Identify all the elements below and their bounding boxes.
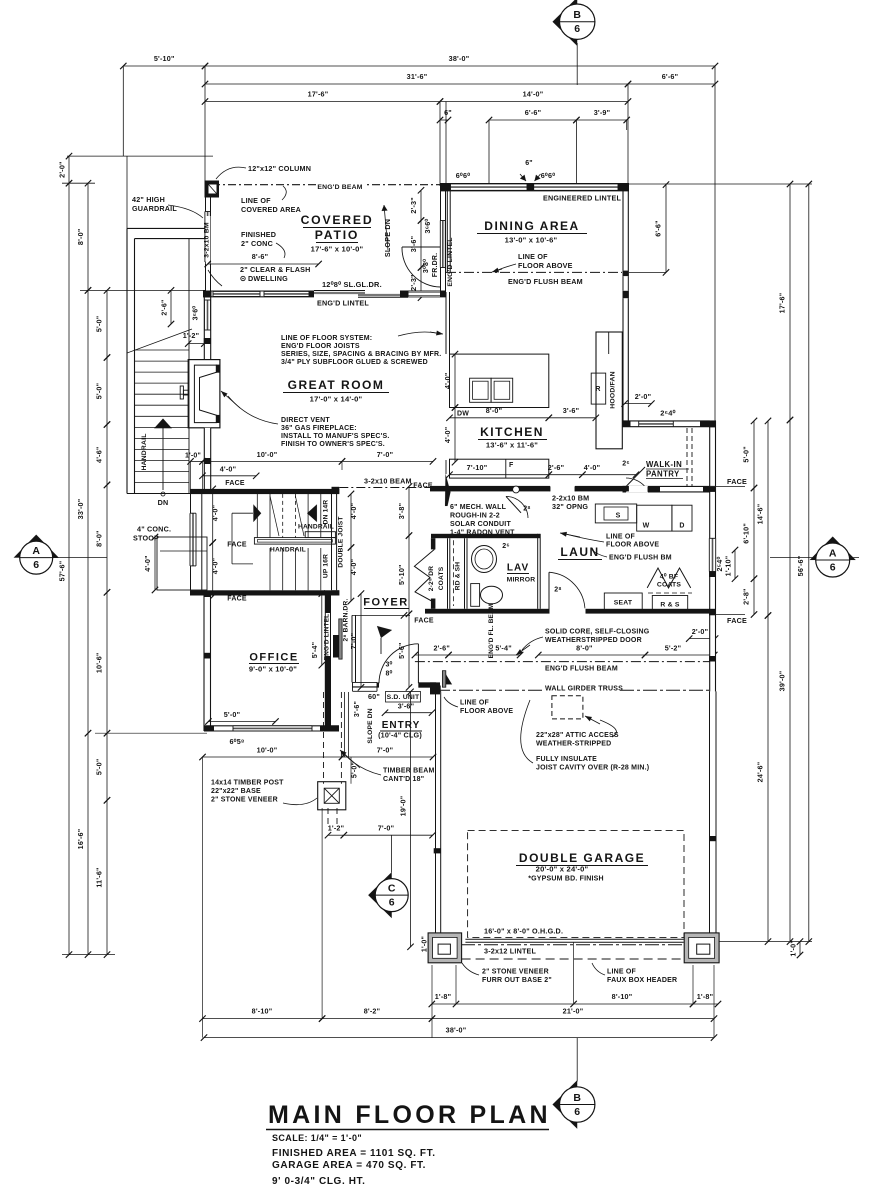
left dim col: 5'-0" second (106, 358, 108, 425)
deck stair direction arrow + DN (162, 428, 164, 490)
patio bottom right corner block (400, 291, 409, 298)
top dimension row: 6'-6" window (489, 119, 576, 121)
dim 5'-0 office bottom (208, 721, 275, 723)
top dimension row: 6'-6" (right) (628, 83, 715, 85)
3-2x10 beam dashed to kitchen (339, 487, 446, 489)
deck bottom edge (127, 493, 205, 495)
garage interior dashed gypsum box (468, 830, 684, 937)
svg-text:5'-0": 5'-0" (352, 762, 359, 778)
svg-text:8⁰: 8⁰ (385, 670, 392, 678)
svg-text:8'-2": 8'-2" (364, 1007, 381, 1016)
svg-text:B: B (573, 9, 581, 21)
svg-text:DN 14R: DN 14R (323, 500, 330, 525)
great room / kitchen divider wall (445, 292, 447, 354)
svg-text:R & S: R & S (660, 602, 679, 609)
svg-text:2'-3": 2'-3" (409, 274, 418, 291)
svg-text:4'-6": 4'-6" (95, 446, 104, 463)
right exterior wall upper (pantry) (710, 421, 716, 487)
svg-text:36" GAS FIREPLACE:: 36" GAS FIREPLACE: (281, 425, 357, 432)
office right wall (324, 594, 326, 731)
svg-text:5'-0": 5'-0" (224, 710, 241, 719)
patio right wall (440, 190, 442, 291)
svg-text:3'-6": 3'-6" (563, 406, 580, 415)
svg-text:2'-0": 2'-0" (58, 161, 67, 178)
svg-text:1-4" RADON VENT: 1-4" RADON VENT (450, 530, 515, 537)
laundry door opening in bottom wall (550, 608, 586, 614)
handrail bar (254, 538, 335, 545)
svg-text:LINE OF: LINE OF (518, 252, 548, 261)
svg-text:HOOD/FAN: HOOD/FAN (610, 371, 617, 408)
stair diagonal break lines (270, 496, 279, 536)
dims foyer 3'-8 5'-10 5'-6 (408, 486, 410, 535)
svg-text:FACE: FACE (227, 542, 247, 549)
laundry bottom wall (425, 609, 716, 614)
svg-text:2⁸: 2⁸ (554, 587, 562, 594)
stone veneer post right (684, 933, 719, 963)
dim 4'-0 vert gap (454, 408, 456, 463)
svg-text:4'-0": 4'-0" (211, 505, 220, 522)
kitchen island (450, 354, 549, 407)
dims 4'-0 foyer col (350, 494, 352, 548)
right dim col: 56'-6" overall (808, 184, 810, 942)
section marker B/6 top (576, 43, 578, 85)
right dim col: 2'-8" (753, 579, 755, 615)
bottom dim row A: 1'-8" right (693, 1003, 718, 1005)
svg-text:1'-10": 1'-10" (724, 556, 733, 577)
svg-text:3⁶6⁰: 3⁶6⁰ (423, 219, 432, 234)
toilet (471, 584, 480, 607)
stair walk path loop (232, 512, 253, 514)
kitchen sink double (470, 378, 492, 402)
svg-text:39'-0": 39'-0" (778, 671, 787, 692)
svg-text:SOLID CORE, SELF-CLOSING: SOLID CORE, SELF-CLOSING (545, 629, 650, 636)
left dim col: 8'-0" (87, 183, 89, 290)
dashed line eng'd flush beam dining (446, 271, 622, 273)
svg-text:ENG'D LINTEL: ENG'D LINTEL (317, 299, 369, 308)
svg-text:FINISH TO OWNER'S SPEC'S.: FINISH TO OWNER'S SPEC'S. (281, 441, 385, 448)
svg-text:8'-0": 8'-0" (76, 229, 85, 246)
foyer face wall (south) with window and door opening (352, 682, 379, 687)
dining right wall (622, 189, 624, 271)
svg-text:2" STONE VENEER: 2" STONE VENEER (211, 797, 278, 804)
svg-text:2'-0": 2'-0" (635, 392, 652, 401)
svg-text:(10'-4" CLG): (10'-4" CLG) (378, 731, 422, 740)
timber post 14x14 (318, 782, 346, 810)
dining top windows 6-0 6-0 (451, 184, 528, 190)
stair right wall (332, 487, 340, 494)
svg-text:6⁰6⁰: 6⁰6⁰ (456, 171, 471, 180)
pantry bottom wall (623, 486, 717, 492)
svg-text:WALL GIRDER TRUSS: WALL GIRDER TRUSS (545, 686, 623, 693)
svg-text:10'-6": 10'-6" (95, 652, 104, 673)
svg-text:1'-2": 1'-2" (183, 331, 200, 340)
svg-text:1'-2": 1'-2" (328, 824, 345, 833)
svg-text:3⁰: 3⁰ (385, 661, 392, 669)
bottom dim row B: 8'-10" (203, 1018, 323, 1020)
svg-text:FLOOR ABOVE: FLOOR ABOVE (460, 708, 513, 715)
svg-text:SOLAR CONDUIT: SOLAR CONDUIT (450, 521, 511, 528)
dim 5'-4 office rot (321, 594, 323, 666)
svg-text:ENG'D BEAM: ENG'D BEAM (317, 184, 362, 191)
svg-text:17'-0" x 14'-0": 17'-0" x 14'-0" (310, 395, 363, 404)
svg-text:6" MECH. WALL: 6" MECH. WALL (450, 504, 507, 511)
entry west wall (351, 615, 353, 682)
patio left wall window (205, 212, 210, 263)
laundry appliances S W D (595, 504, 636, 523)
svg-text:TIMBER BEAM: TIMBER BEAM (383, 768, 435, 775)
svg-text:5'-6": 5'-6" (397, 642, 406, 659)
svg-text:20'-0" x 24'-0": 20'-0" x 24'-0" (536, 865, 589, 874)
right dim col: 5'-0" pantry (753, 421, 755, 488)
svg-text:22"x22" BASE: 22"x22" BASE (211, 788, 261, 795)
bath left wall (464, 538, 466, 609)
svg-text:24'-6": 24'-6" (756, 762, 765, 783)
top dimension row: 31'-6" (205, 83, 628, 85)
dim 3'-6 entry (385, 712, 432, 714)
deck stair treads (135, 349, 190, 351)
svg-text:1'-0": 1'-0" (422, 936, 429, 952)
svg-text:5'-10": 5'-10" (397, 564, 406, 585)
closet bifold doors M (414, 549, 434, 602)
R & S box (652, 596, 687, 611)
closet jambs (431, 538, 436, 549)
svg-text:3'-8": 3'-8" (397, 503, 406, 520)
kitchen/laundry dividing wall (430, 486, 550, 492)
svg-text:13'-0" x 10'-6": 13'-0" x 10'-6" (505, 236, 558, 245)
svg-text:6: 6 (33, 559, 39, 571)
bottom dim row A: 8'-10" door (574, 1003, 693, 1005)
right dim col: 6'-10" (753, 488, 755, 579)
deck handrail bracket (180, 386, 183, 399)
bottom extension lines (202, 757, 204, 1038)
dim 8'-6 patio (208, 263, 319, 265)
svg-text:7'-0": 7'-0" (349, 633, 358, 650)
right wall garage (709, 691, 711, 934)
svg-text:3⁰8⁰: 3⁰8⁰ (422, 259, 430, 273)
svg-text:2" CONC: 2" CONC (241, 239, 273, 248)
svg-text:33'-0": 33'-0" (76, 499, 85, 520)
dim 2'-0 kitchen right (625, 403, 652, 405)
svg-text:LAUN: LAUN (560, 545, 599, 559)
svg-text:4'-0": 4'-0" (220, 464, 237, 473)
svg-text:6": 6" (444, 108, 452, 117)
svg-text:16'-6": 16'-6" (76, 829, 85, 850)
svg-text:FACE: FACE (727, 477, 747, 486)
svg-text:A: A (32, 545, 40, 557)
stair arrow upper (DN) (253, 504, 261, 522)
extension lines top (122, 66, 124, 156)
corridor dims row 2-6 5-4 8-0 5-2 (415, 654, 449, 656)
closet top wall (431, 534, 540, 538)
svg-text:FAUX BOX HEADER: FAUX BOX HEADER (607, 977, 677, 984)
dim 7'-10 counter (450, 474, 549, 476)
svg-text:ENG'D FL. BEAM: ENG'D FL. BEAM (488, 604, 495, 659)
svg-text:CANT'D 18": CANT'D 18" (383, 776, 424, 783)
svg-text:38'-0": 38'-0" (446, 1026, 467, 1035)
svg-text:COVERED: COVERED (301, 213, 374, 227)
label WALL GIRDER TRUSS (543, 683, 619, 692)
dim 8'-0 island (450, 417, 549, 419)
svg-text:DN: DN (158, 498, 169, 507)
top dimension row: 38'-0" (205, 65, 715, 67)
svg-text:17'-6": 17'-6" (778, 293, 787, 314)
svg-text:14'-0": 14'-0" (523, 90, 544, 99)
svg-text:38'-0": 38'-0" (449, 54, 470, 63)
svg-text:WALK-IN: WALK-IN (646, 460, 682, 469)
wall opening 32in (550, 485, 575, 492)
left dim col: 10'-6" (106, 592, 108, 733)
column 12x12 top-left (205, 181, 220, 198)
dim rows below office: 10'-0 / 7'-0 (203, 756, 343, 758)
left dim col: 8'-0" lower (106, 485, 108, 592)
svg-text:FULLY INSULATE: FULLY INSULATE (536, 756, 597, 763)
patio left beam wall (205, 197, 207, 291)
svg-text:5'-10": 5'-10" (154, 54, 175, 63)
right wall window 2-5 4-0 (709, 538, 715, 571)
svg-text:*GYPSUM BD. FINISH: *GYPSUM BD. FINISH (528, 876, 604, 883)
svg-text:12"x12" COLUMN: 12"x12" COLUMN (248, 164, 311, 173)
section marker C/6 (390, 835, 392, 872)
svg-text:DWELLING: DWELLING (248, 274, 288, 283)
label ENG'D BEAM (318, 181, 364, 190)
svg-text:LINE OF: LINE OF (607, 969, 637, 976)
svg-text:3-2x10 BM: 3-2x10 BM (203, 222, 210, 258)
top dim 6" stub (440, 119, 448, 121)
kitchen lower counter (450, 459, 549, 478)
svg-text:COATS: COATS (657, 582, 682, 589)
garage left wall (435, 686, 441, 693)
sliding glass door (314, 290, 406, 298)
svg-text:FURR OUT BASE 2": FURR OUT BASE 2" (482, 977, 552, 984)
dim 3'-6 (549, 417, 596, 419)
mech wall leader flag (445, 474, 451, 506)
svg-text:FACE: FACE (225, 480, 245, 487)
garage bottom wall right stub (684, 935, 718, 941)
dim 2'-0 corridor (689, 638, 715, 640)
svg-text:6": 6" (525, 160, 533, 167)
svg-text:60": 60" (368, 692, 380, 701)
svg-text:R: R (595, 386, 600, 393)
bottom dim row A: 1'-8" left (432, 1003, 456, 1005)
stoop 4in conc (157, 537, 207, 590)
stair top wall / beam wall (190, 489, 339, 494)
top dimension row: 17'-6" (205, 101, 440, 103)
svg-text:4'-0": 4'-0" (584, 463, 601, 472)
right wall below window (710, 572, 716, 615)
svg-text:14x14 TIMBER POST: 14x14 TIMBER POST (211, 780, 284, 787)
svg-text:3/4" PLY SUBFLOOR GLUED & SCRE: 3/4" PLY SUBFLOOR GLUED & SCREWED (281, 359, 428, 366)
svg-text:8'-10": 8'-10" (612, 992, 633, 1001)
svg-text:9'-0" x 10'-0": 9'-0" x 10'-0" (249, 665, 297, 674)
svg-text:4'-0": 4'-0" (349, 559, 358, 576)
svg-text:6⁰5⁸: 6⁰5⁸ (229, 737, 244, 746)
svg-text:ENTRY: ENTRY (382, 720, 421, 731)
pantry top window (639, 421, 674, 426)
left dim col: 16'-6" (87, 733, 89, 954)
right dim col: 6'-6" dining (665, 185, 667, 273)
svg-text:FACE: FACE (414, 618, 434, 625)
svg-text:5'-2": 5'-2" (665, 644, 682, 653)
svg-text:LINE OF: LINE OF (606, 534, 636, 541)
svg-text:RD & SH: RD & SH (455, 562, 462, 591)
svg-text:8'-6": 8'-6" (252, 252, 269, 261)
svg-text:4'-0": 4'-0" (143, 555, 152, 572)
svg-text:4'-0": 4'-0" (211, 558, 220, 575)
svg-text:2'-0": 2'-0" (692, 627, 709, 636)
svg-text:FINISHED AREA = 1101 SQ. FT.: FINISHED AREA = 1101 SQ. FT. (272, 1148, 436, 1159)
pantry shelving dashed (686, 428, 688, 486)
svg-text:F: F (509, 462, 514, 469)
svg-text:3'-6": 3'-6" (409, 236, 418, 253)
stone veneer post left (428, 933, 462, 963)
left dim col: 11'-6" (106, 800, 108, 954)
svg-text:INSTALL TO MANUF'S SPEC'S.: INSTALL TO MANUF'S SPEC'S. (281, 433, 389, 440)
bath right wall (537, 534, 539, 609)
stair left window (190, 513, 196, 566)
svg-text:FACE: FACE (413, 483, 433, 490)
stair left wall (190, 494, 192, 591)
bottom dim row C: 38'-0" (204, 1037, 714, 1039)
svg-text:10'-0": 10'-0" (257, 450, 278, 459)
svg-text:ENG'D FLUSH BEAM: ENG'D FLUSH BEAM (545, 666, 618, 673)
svg-text:3-2x10 BEAM: 3-2x10 BEAM (364, 477, 412, 486)
svg-text:KITCHEN: KITCHEN (480, 425, 544, 439)
svg-text:6'-6": 6'-6" (525, 108, 542, 117)
svg-text:7'-10": 7'-10" (467, 463, 488, 472)
svg-text:FR.DR.: FR.DR. (432, 253, 439, 278)
dim 19'-0 rot (410, 692, 412, 947)
hood column divider (608, 332, 610, 354)
left dim col: 2'-0" overhang (68, 156, 70, 183)
front door FR.DR. quarter swing (402, 247, 441, 287)
svg-text:12⁰8⁰ SL.GL.DR.: 12⁰8⁰ SL.GL.DR. (322, 280, 382, 289)
right dim col: 39'-0" (789, 420, 791, 942)
bottom dim row B: 21'-0" (432, 1018, 714, 1020)
range box R (591, 373, 606, 404)
svg-text:2'-3": 2'-3" (409, 197, 418, 214)
svg-text:DINING AREA: DINING AREA (484, 219, 579, 233)
svg-text:2" STONE VENEER: 2" STONE VENEER (482, 969, 549, 976)
svg-text:LAV: LAV (507, 563, 529, 574)
dim 4'-0 stoop (154, 537, 156, 590)
svg-text:LINE OF FLOOR SYSTEM:: LINE OF FLOOR SYSTEM: (281, 335, 372, 342)
svg-text:6: 6 (389, 897, 395, 909)
office bottom window (233, 726, 312, 731)
svg-text:ENG'D FLUSH BM: ENG'D FLUSH BM (609, 555, 672, 562)
svg-text:3'-6": 3'-6" (398, 702, 415, 711)
svg-text:PATIO: PATIO (315, 228, 359, 242)
entry walkway edge lines (344, 692, 346, 757)
dim 4'-0 vert island (454, 354, 456, 407)
svg-text:9' 0-3/4" CLG. HT.: 9' 0-3/4" CLG. HT. (272, 1176, 366, 1187)
svg-text:8'-0": 8'-0" (576, 644, 593, 653)
dims 4'-0 stair left (212, 489, 214, 543)
svg-text:ENG'D LINTEL: ENG'D LINTEL (323, 614, 330, 661)
svg-text:FOYER: FOYER (363, 597, 408, 609)
svg-text:6: 6 (830, 562, 836, 574)
svg-text:HANDRAIL: HANDRAIL (270, 547, 306, 554)
svg-text:LINE OF: LINE OF (460, 700, 490, 707)
svg-text:5'-0": 5'-0" (95, 316, 104, 333)
svg-text:LINE OF: LINE OF (241, 196, 271, 205)
SEAT box (604, 593, 642, 611)
svg-text:7'-0": 7'-0" (377, 450, 394, 459)
svg-text:4'-0": 4'-0" (349, 503, 358, 520)
deck guardrail top double line (127, 227, 205, 229)
closet divider + rod (447, 538, 449, 609)
svg-text:FLOOR ABOVE: FLOOR ABOVE (518, 261, 573, 270)
dining west wall (446, 191, 448, 272)
svg-text:W: W (643, 523, 650, 530)
svg-text:2-2⁸ DR: 2-2⁸ DR (428, 566, 435, 591)
barn door jamb block (333, 635, 339, 658)
svg-text:17'-6" x 10'-0": 17'-6" x 10'-0" (311, 245, 364, 254)
svg-text:16'-0" x 8'-0" O.H.G.D.: 16'-0" x 8'-0" O.H.G.D. (484, 927, 563, 936)
svg-text:4'-0": 4'-0" (443, 427, 452, 444)
label ENG'D FLUSH BEAM corridor (543, 663, 615, 672)
svg-text:DOUBLE JOIST: DOUBLE JOIST (338, 516, 345, 567)
svg-text:17'-6": 17'-6" (308, 90, 329, 99)
svg-text:2'-6": 2'-6" (162, 299, 169, 315)
svg-text:11'-6": 11'-6" (95, 867, 104, 887)
svg-text:GARAGE AREA = 470 SQ. FT.: GARAGE AREA = 470 SQ. FT. (272, 1160, 426, 1171)
svg-text:6'-10": 6'-10" (742, 523, 751, 544)
svg-text:S.D. UNIT: S.D. UNIT (387, 694, 420, 701)
svg-text:COVERED AREA: COVERED AREA (241, 205, 301, 214)
section marker A/6 left (36, 557, 107, 559)
dining top wall (440, 184, 629, 191)
svg-text:3'-6": 3'-6" (354, 701, 361, 717)
svg-text:FACE: FACE (227, 596, 247, 603)
left dim col: 5'-0" office (106, 733, 108, 800)
top dimension row: 3'-9" (576, 119, 626, 121)
fireplace (188, 360, 220, 428)
patio bottom wall (dwelling wall) (203, 291, 446, 297)
svg-text:WEATHERSTRIPPED DOOR: WEATHERSTRIPPED DOOR (545, 637, 642, 644)
svg-text:2'-8": 2'-8" (742, 588, 751, 605)
svg-text:C: C (388, 883, 396, 895)
svg-text:13'-6" x 11'-6": 13'-6" x 11'-6" (486, 441, 538, 450)
svg-text:2⁶: 2⁶ (622, 461, 630, 468)
left ext lines (67, 155, 213, 157)
garage door corridor side (442, 671, 445, 688)
svg-text:DOUBLE GARAGE: DOUBLE GARAGE (519, 851, 645, 865)
svg-text:FLOOR ABOVE: FLOOR ABOVE (606, 542, 659, 549)
svg-text:ENGINEERED LINTEL: ENGINEERED LINTEL (543, 194, 621, 203)
left dim col: 57'-6" overall (68, 183, 70, 954)
svg-text:5'-4": 5'-4" (310, 642, 319, 659)
svg-text:SEAT: SEAT (614, 600, 633, 607)
svg-text:10'-0": 10'-0" (257, 746, 278, 755)
svg-text:6'-6": 6'-6" (654, 220, 663, 237)
sink circle LAV (472, 546, 497, 573)
svg-text:PANTRY: PANTRY (646, 470, 680, 479)
top dimension row: 5'-10" (123, 65, 205, 67)
dim 2'-6 (549, 474, 583, 476)
svg-text:SERIES, SIZE, SPACING & BRACIN: SERIES, SIZE, SPACING & BRACING BY MFR. (281, 351, 441, 358)
fireplace dim 1'-2 (188, 343, 204, 345)
svg-text:SCALE: 1/4" = 1'-0": SCALE: 1/4" = 1'-0" (272, 1133, 362, 1143)
left dim col: 4'-6" (106, 425, 108, 485)
svg-text:A: A (829, 548, 837, 560)
svg-text:3⁶6⁰: 3⁶6⁰ (192, 306, 200, 321)
svg-text:8'-0": 8'-0" (486, 406, 503, 415)
top dimension row: 14'-0" (440, 101, 628, 103)
svg-text:8'-0": 8'-0" (95, 530, 104, 547)
entry door wall east part (418, 682, 436, 687)
svg-text:COATS: COATS (438, 566, 445, 590)
svg-text:5'-0": 5'-0" (95, 383, 104, 400)
